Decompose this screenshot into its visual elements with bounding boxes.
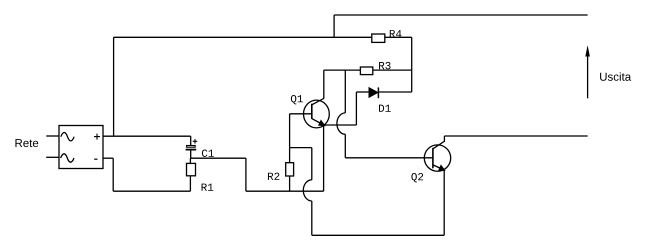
transistor Q2 body: [424, 145, 450, 171]
transistor Q1 base bar: [311, 104, 313, 119]
wire: Q1 emitter drop: [323, 125, 325, 191]
wire: supply riser from bridge + output: [113, 37, 115, 136]
wire: riser to D1 anode: [355, 92, 357, 125]
label Uscita: [600, 72, 631, 80]
label R3: [379, 62, 391, 69]
diode D1 triangle: [369, 88, 378, 98]
wire: junction drop: [245, 158, 247, 191]
wire: bottom run to Q2 emitter: [312, 234, 444, 236]
transistor Q1 base wire: [290, 113, 312, 115]
wire: feedback drop upper: [311, 148, 313, 180]
wire: Q1 collector to R3: [324, 69, 361, 71]
bridge rectifier box: [59, 126, 103, 169]
wire: node X vertical: [411, 37, 413, 92]
wire: feedback drop lower: [311, 201, 313, 235]
wire: top output rail: [334, 14, 587, 16]
wire: bridge - output: [103, 157, 113, 159]
resistor R3 body: [360, 67, 372, 75]
label Q2: [411, 173, 423, 182]
wire: Q1 emitter to D1 riser: [324, 124, 357, 126]
resistor R1 top lead: [189, 158, 191, 163]
wire: R3 to node X: [373, 69, 412, 71]
output arrow head: [585, 45, 590, 56]
wire: down to Q2 base lower: [344, 134, 346, 158]
bridge rectifier + mark: [94, 134, 100, 140]
diode D1 cathode bar: [377, 87, 379, 98]
wire: + supply rail: [114, 36, 372, 38]
label R2: [268, 173, 279, 180]
label D1: [379, 105, 391, 112]
wire: mains input bottom lead: [46, 156, 59, 158]
transistor Q1 collector lead: [312, 70, 324, 105]
transistor Q1 emitter lead: [312, 119, 324, 125]
bridge rectifier - mark: [94, 158, 97, 160]
diode D1 anode wire: [356, 91, 369, 93]
capacitor C1 positive plate: [187, 146, 196, 148]
diode D1 cathode wire: [378, 91, 411, 93]
transistor Q2 collector lead: [433, 136, 445, 149]
resistor R2 bottom lead: [289, 176, 291, 191]
wire: drop from top output rail to supply rail: [333, 15, 335, 37]
wire: Q2 emitter drop: [443, 170, 445, 235]
bridge rectifier AC sine top: [61, 133, 74, 141]
capacitor C1 top lead: [190, 136, 192, 145]
transistor Q2 base bar: [432, 148, 434, 168]
wire: C1/R1 junction to the right: [191, 157, 246, 159]
wire: bottom emitter run: [246, 190, 324, 192]
resistor R4 body: [372, 34, 385, 42]
capacitor C1 negative plate: [186, 149, 197, 151]
label C1: [202, 150, 214, 157]
label R1: [202, 184, 214, 191]
resistor R1 body: [187, 163, 196, 175]
wire: Q2 collector to output: [444, 135, 587, 137]
label Q1: [291, 95, 303, 104]
resistor R1 bottom lead: [189, 176, 191, 191]
output arrow line: [587, 51, 589, 98]
wire: Q2 base wire: [345, 157, 433, 159]
resistor R2 top lead from Q1 base: [289, 114, 291, 163]
wire: - bottom run to R1: [113, 190, 190, 192]
capacitor C1 bottom lead: [190, 150, 192, 158]
transistor Q1 body: [304, 100, 330, 128]
capacitor C1 plus mark: [193, 139, 198, 144]
bridge rectifier AC sine bottom: [61, 154, 74, 162]
transistor Q1 emitter arrow: [319, 121, 324, 126]
wire hop: crosses Q1 emitter wire: [337, 113, 345, 134]
wire: feedback branch from Q1 base node: [290, 147, 312, 149]
wire: R4 to node X: [385, 36, 412, 38]
wire hop: feedback crosses bottom emitter run: [303, 180, 312, 201]
label R4: [390, 30, 402, 37]
transistor Q2 emitter arrow: [439, 166, 444, 171]
label Rete: [15, 139, 38, 147]
wire: bridge + output to C1: [103, 135, 191, 137]
transistor Q2 emitter lead: [433, 165, 444, 170]
wire: R3 node down to Q2 base upper: [344, 70, 346, 113]
resistor R2 body: [286, 163, 294, 176]
wire: - output drop: [112, 158, 114, 191]
wire: mains input top lead: [46, 135, 59, 137]
